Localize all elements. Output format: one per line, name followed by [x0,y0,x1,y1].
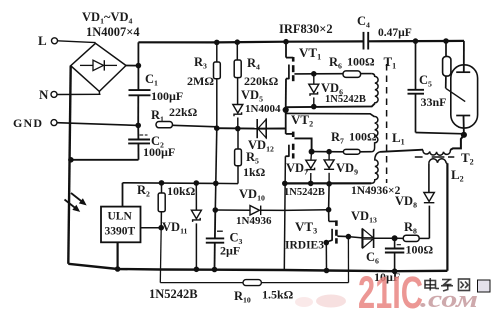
capacitor C1 100uF [129,72,184,125]
terminal GND [13,116,138,130]
svg-text:100Ω: 100Ω [406,243,434,257]
svg-text:1N5242B: 1N5242B [284,187,325,198]
label 1N5242B (VD11) [149,287,198,301]
watermark [295,267,490,318]
wire mid node lower [286,113,375,116]
svg-text:GND: GND [13,116,43,130]
wire VT2 column down [284,156,285,270]
transformer T1 winding3 [371,152,379,183]
svg-text:1N4004: 1N4004 [245,103,281,115]
wire top bus [138,41,464,43]
resistor R1 22k [151,105,217,128]
capacitor C3 2uF [206,208,243,272]
svg-text:.сом: .сом [420,287,478,313]
starter resistor [443,39,451,89]
resistor R3 2M [187,40,220,128]
inductor L2 [429,159,464,271]
svg-text:2MΩ: 2MΩ [187,74,214,88]
zener VD12 [248,119,274,154]
capacitor C6 10uF [366,238,404,284]
capacitor C4 0.47uF [357,14,412,50]
diode VD5 1N4004 [233,88,281,131]
wire mid node upper [286,104,375,108]
node R3-R1 junction [215,126,220,131]
transformer T1 winding2 [372,117,378,152]
bridge rectifier VD1-VD4 [71,43,126,94]
IC U1 ULN3390T [101,183,164,272]
zener VD11 1N5242B [162,183,201,272]
wire ULN-top rail [123,181,219,186]
resistor R7 100 [312,130,377,155]
wire R2 column to R10 loop [159,228,162,283]
diode VD10 1N4936 [215,187,328,227]
transformer T1 core [386,64,388,183]
svg-text:VD1~VD4: VD1~VD4 [82,10,133,26]
capacitor C5 33nF [408,39,464,134]
wire VT1 tap [294,72,343,77]
svg-text:22kΩ: 22kΩ [169,105,198,119]
wire DC- left rail [68,66,70,264]
transformer T1 winding1 [375,77,378,104]
resistor R2 10k [137,183,196,228]
wire bottom bus [68,264,447,271]
diode VD8 1N4936 [395,163,434,238]
svg-text:100µF: 100µF [151,89,183,103]
svg-text:100Ω: 100Ω [349,130,377,144]
terminal L [38,33,96,48]
svg-text:33nF: 33nF [421,95,447,109]
transformer T2 primary [380,135,464,155]
svg-text:ULN: ULN [108,211,133,223]
node VD7 junction [309,149,314,154]
wire VD12 to VT2 [266,128,286,130]
node R8-C6 junction [392,236,397,241]
svg-text:1N5242B: 1N5242B [325,94,366,105]
svg-text:1N4936: 1N4936 [236,215,272,227]
svg-text:2µF: 2µF [220,244,240,258]
svg-text:1N4007×4: 1N4007×4 [86,25,140,39]
svg-text:1N5242B: 1N5242B [149,287,198,301]
svg-text:3390T: 3390T [105,226,136,238]
resistor R8 100 [395,220,434,257]
svg-text:10kΩ: 10kΩ [167,184,196,198]
svg-text:1kΩ: 1kΩ [243,165,266,179]
transistor VT2 [285,110,313,159]
svg-text:1N4936×2: 1N4936×2 [351,185,401,197]
resistor R5 1k [216,129,266,184]
wire bridge output [126,42,141,90]
node C1-GND junction [136,123,141,128]
svg-text:1.5kΩ: 1.5kΩ [262,288,294,302]
svg-text:0.47µF: 0.47µF [378,27,412,39]
node mid junction [283,107,288,112]
svg-text:IRDIE3: IRDIE3 [285,240,324,252]
terminal N [39,87,101,102]
diac VD13 [348,209,394,248]
transistor VT1 [284,39,321,110]
svg-text:21IC: 21IC [358,267,423,318]
light arrows [65,193,86,211]
wire main column mid [215,128,217,210]
resistor R10 1.5k [160,237,348,305]
diode VD9 1N4936 [324,152,358,184]
svg-text:100µF: 100µF [143,145,175,159]
resistor R4 220k [234,40,278,104]
capacitor C2 100uF [69,125,176,162]
zener VD6 1N5242B [309,74,366,109]
resistor R6 100 [329,55,375,78]
zener VD7 1N5242B [286,152,316,184]
wire node to VD12 [217,127,257,129]
svg-text:IRF830×2: IRF830×2 [279,22,333,36]
svg-text:N: N [39,87,49,102]
wire secondary bus [283,181,372,186]
transformer T2 core [415,156,455,158]
svg-text:L: L [38,33,47,48]
svg-text:100Ω: 100Ω [347,55,375,69]
svg-text:220kΩ: 220kΩ [244,74,279,88]
label VD1~VD4 1N4007x4 [82,10,140,39]
transistor VT3 [285,184,351,273]
lamp tube [446,41,478,137]
